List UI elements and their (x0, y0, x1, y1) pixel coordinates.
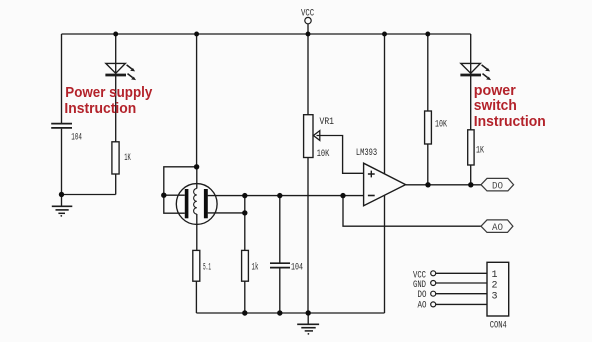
svg-text:DO: DO (418, 290, 427, 301)
svg-text:Instruction: Instruction (474, 114, 546, 130)
svg-text:3: 3 (492, 291, 498, 302)
svg-text:switch: switch (474, 98, 517, 114)
svg-text:10K: 10K (317, 149, 330, 160)
svg-text:1k: 1k (252, 262, 259, 274)
svg-text:1K: 1K (476, 146, 484, 157)
svg-text:Power supply: Power supply (65, 85, 152, 101)
svg-text:Instruction: Instruction (64, 101, 136, 117)
svg-text:LM393: LM393 (356, 148, 377, 159)
svg-text:10K: 10K (435, 120, 447, 131)
svg-text:DO: DO (492, 182, 503, 193)
svg-text:1: 1 (492, 270, 498, 281)
svg-text:2: 2 (492, 281, 498, 292)
svg-text:5.1: 5.1 (203, 263, 211, 274)
svg-text:VR1: VR1 (320, 117, 335, 128)
svg-text:power: power (474, 83, 516, 99)
svg-text:CON4: CON4 (490, 321, 507, 332)
svg-text:104: 104 (71, 133, 82, 144)
svg-text:AO: AO (492, 223, 503, 234)
svg-text:VCC: VCC (301, 8, 314, 19)
svg-text:AO: AO (418, 301, 427, 312)
svg-text:104: 104 (291, 263, 303, 274)
svg-text:1K: 1K (124, 153, 131, 164)
